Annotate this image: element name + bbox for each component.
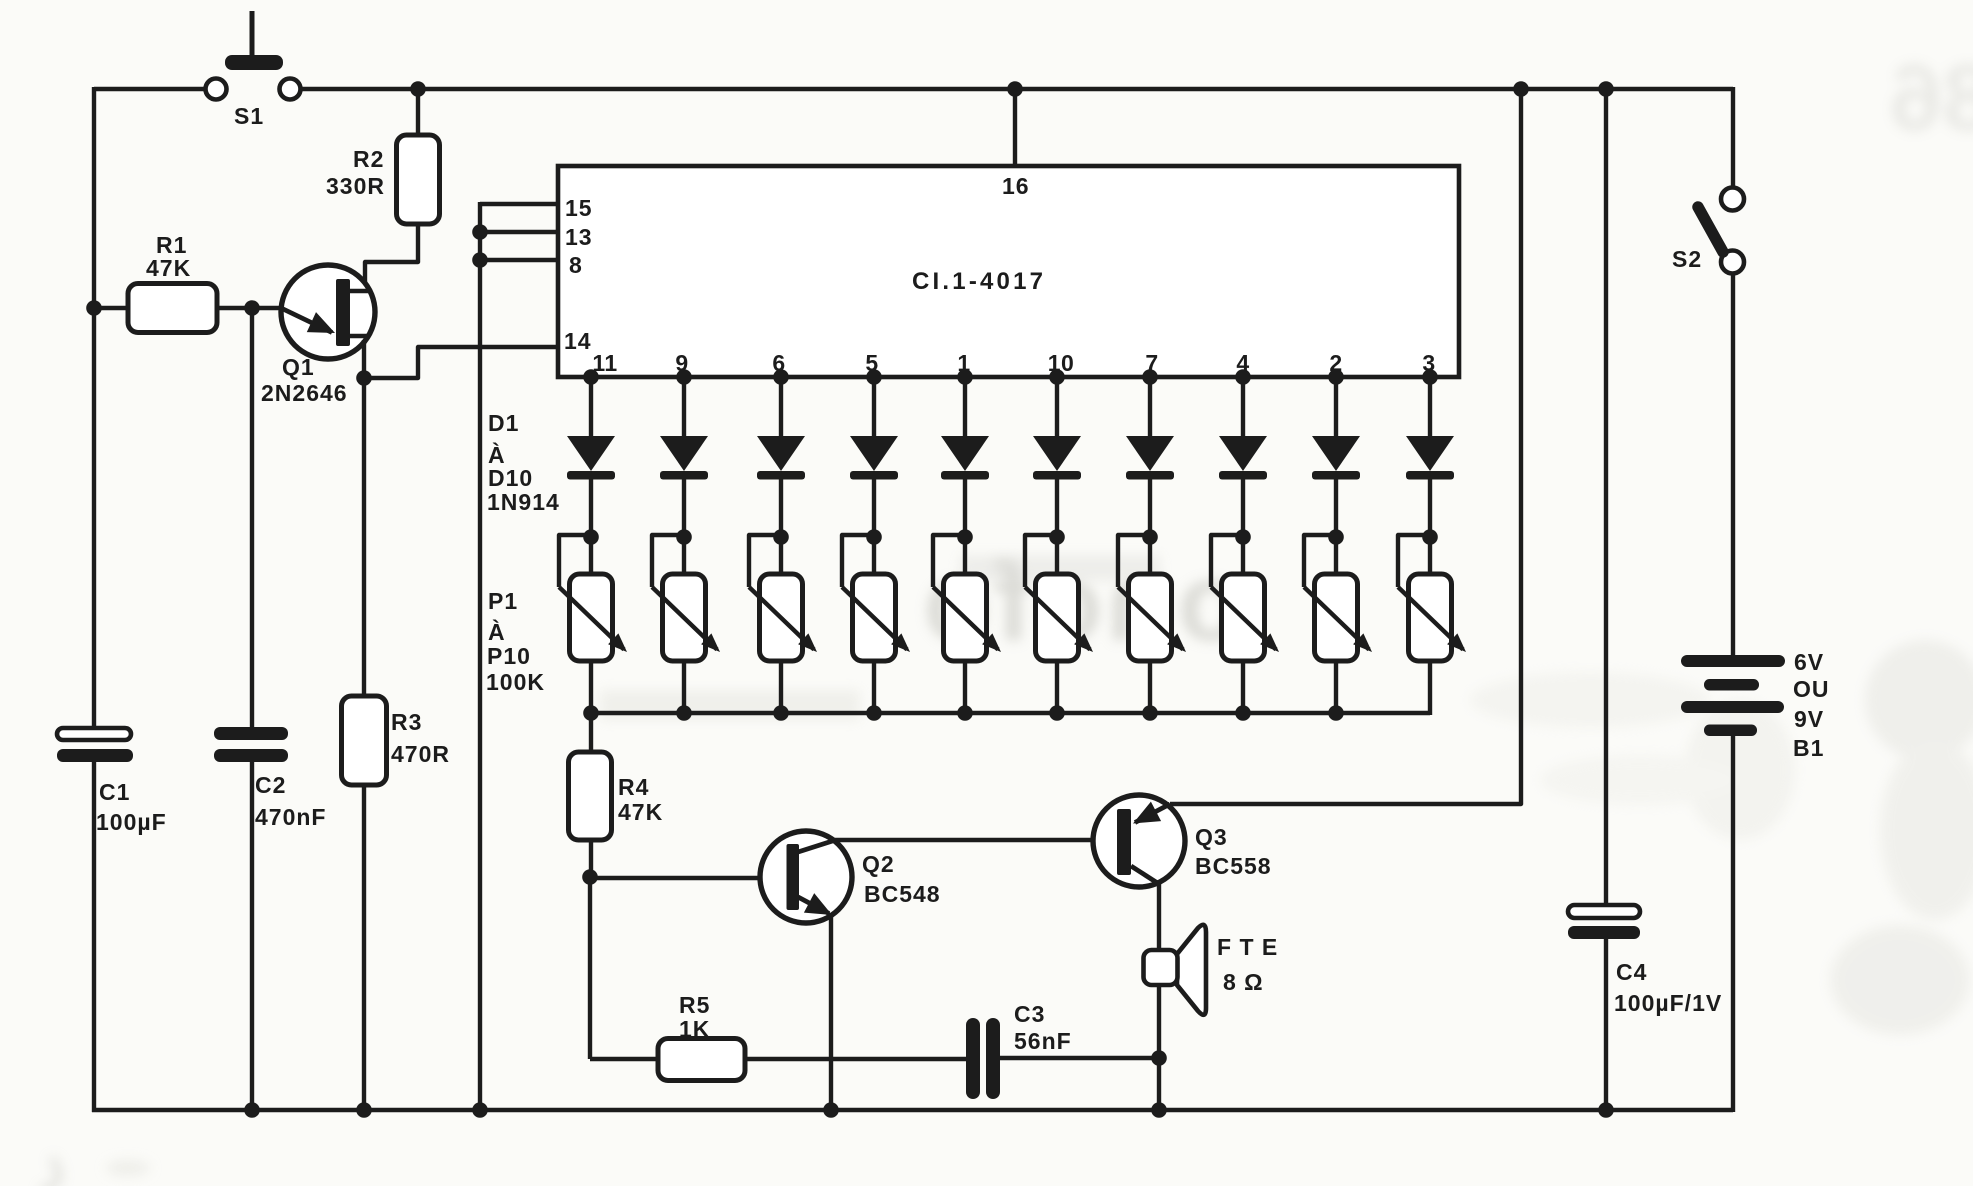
wire C4 to ground bus [1604, 937, 1608, 1110]
wire R5 to C3 [745, 1057, 968, 1061]
wire R4 to base node [589, 840, 593, 877]
node R1 / C2 branch [244, 300, 260, 316]
wire pin 2 to D9 [1334, 377, 1338, 438]
resistor R5 [658, 1039, 745, 1081]
wire +V drop at x=1521 to Q3 emitter [1170, 89, 1521, 804]
svg-text:56nF: 56nF [1014, 1028, 1072, 1054]
capacitor C3 [966, 1018, 1000, 1099]
node pot bus 7 [1142, 705, 1158, 721]
label pin 7 [1145, 350, 1158, 376]
diode D4 [850, 436, 898, 480]
wire P8 top lead [1241, 537, 1245, 576]
wire left rail down to C1 [92, 87, 96, 731]
svg-text:BC548: BC548 [864, 881, 941, 907]
svg-text:À: À [488, 441, 506, 468]
node C4 / ground bus [1598, 1102, 1614, 1118]
battery B1 [1681, 655, 1785, 736]
node pin 1 [957, 369, 973, 385]
wire pin 15 stub [480, 202, 558, 206]
wire right rail S2 to battery [1731, 273, 1735, 657]
svg-text:P10: P10 [487, 643, 531, 669]
label pin 3 [1422, 350, 1435, 376]
potentiometer P7 body [1129, 574, 1172, 661]
node D2/P2 junction [676, 529, 692, 545]
node pin 4 [1235, 369, 1251, 385]
node pin 10 [1049, 369, 1065, 385]
wire node to R3 [362, 378, 366, 698]
wire D8 to P8 [1241, 479, 1245, 537]
label C1 100µF [96, 779, 167, 835]
wire P7 top lead [1148, 537, 1152, 576]
potentiometer P5 wiper [933, 535, 1001, 652]
node top rail / pin16 [1007, 81, 1023, 97]
label C3 56nF [1014, 1001, 1072, 1054]
label FTE 8Ω [1217, 934, 1278, 995]
node pin 5 [866, 369, 882, 385]
wire left rail C1 to ground bus [92, 760, 96, 1112]
wire P5 top lead [963, 537, 967, 576]
wire D4 to P4 [872, 479, 876, 537]
potentiometer P9 body [1315, 574, 1358, 661]
potentiometer P4 wiper [842, 535, 910, 652]
svg-text:C3: C3 [1014, 1001, 1045, 1027]
node D10/P10 junction [1422, 529, 1438, 545]
wire P2 top lead [682, 537, 686, 576]
wire Q1 base1 down [362, 340, 366, 378]
potentiometer P2 wiper [652, 535, 720, 652]
node D1/P1 junction [583, 529, 599, 545]
node pin 11 [583, 369, 599, 385]
label pin 2 [1329, 350, 1342, 376]
svg-text:2N2646: 2N2646 [261, 380, 348, 406]
wire P10 bottom lead [1428, 661, 1432, 715]
svg-text:P1: P1 [488, 588, 518, 614]
svg-text:8: 8 [569, 252, 583, 278]
wire R1 to Q1 emitter [217, 306, 283, 310]
potentiometer P9 wiper [1304, 535, 1372, 652]
wire P6 top lead [1055, 537, 1059, 576]
svg-text:470R: 470R [391, 741, 450, 767]
wire pin 11 to D1 [589, 377, 593, 438]
node D8/P8 junction [1235, 529, 1251, 545]
potentiometer P1 body [570, 574, 613, 661]
svg-text:R3: R3 [391, 709, 422, 735]
label Q1 2N2646 [261, 354, 348, 406]
wire P2 bottom lead [682, 661, 686, 715]
label R2 330R [326, 146, 385, 199]
node D4/P4 junction [866, 529, 882, 545]
potentiometer P2 body [663, 574, 706, 661]
diode D1 [567, 436, 615, 480]
label CI.1-4017 [912, 268, 1046, 295]
potentiometer P10 wiper [1398, 535, 1466, 652]
svg-text:1K: 1K [679, 1016, 710, 1042]
diode D9 [1312, 436, 1360, 480]
label C2 470nF [255, 772, 326, 830]
wire top rail to R2 [416, 89, 420, 136]
pushbutton S1 [206, 11, 301, 100]
resistor R1 [128, 284, 217, 333]
node Q2 emitter / ground bus [823, 1102, 839, 1118]
wire pin 3 to D10 [1428, 377, 1432, 438]
wire base node to R5 [590, 1057, 659, 1061]
svg-text:1N914: 1N914 [487, 489, 560, 515]
wire P3 top lead [779, 537, 783, 576]
node pot bus 9 [1328, 705, 1344, 721]
svg-text:15: 15 [565, 195, 593, 221]
node D9/P9 junction [1328, 529, 1344, 545]
wire pin 4 to D8 [1241, 377, 1245, 438]
svg-text:À: À [488, 618, 506, 645]
node pin 3 [1422, 369, 1438, 385]
potentiometer P4 body [853, 574, 896, 661]
node pot bus 8 [1235, 705, 1251, 721]
capacitor C4 [1568, 905, 1640, 939]
resistor R4 [569, 752, 612, 840]
diode D7 [1126, 436, 1174, 480]
svg-text:100µF/1V: 100µF/1V [1614, 990, 1722, 1016]
label D1 À D10 1N914 [487, 410, 560, 515]
label pin 14 [564, 328, 592, 354]
node D7/P7 junction [1142, 529, 1158, 545]
wire pin 16 [1013, 89, 1017, 166]
wire R3 to ground bus [362, 785, 366, 1110]
transistor Q3 [1093, 795, 1185, 887]
node pot bus 6 [1049, 705, 1065, 721]
wire top +V rail (S1 to right corner) [301, 87, 1733, 91]
wire P9 top lead [1334, 537, 1338, 576]
wire D10 to P10 [1428, 479, 1432, 537]
label Q3 BC558 [1195, 824, 1272, 879]
label pin 4 [1236, 350, 1249, 376]
wire pin 7 to D7 [1148, 377, 1152, 438]
potentiometer P3 wiper [749, 535, 817, 652]
node pot bus 5 [957, 705, 973, 721]
svg-text:100K: 100K [486, 669, 545, 695]
wire R2 to Q1 base2 [365, 224, 418, 285]
svg-text:6V: 6V [1794, 649, 1824, 675]
svg-text:47K: 47K [146, 255, 191, 281]
diode D3 [757, 436, 805, 480]
potentiometer P1 wiper [559, 535, 627, 652]
node D3/P3 junction [773, 529, 789, 545]
node common line / ground bus [472, 1102, 488, 1118]
label pin 6 [772, 350, 785, 376]
wire P5 bottom lead [963, 661, 967, 715]
resistor R3 [342, 696, 387, 785]
potentiometer P7 wiper [1118, 535, 1186, 652]
label R3 470R [391, 709, 450, 767]
svg-text:47K: 47K [618, 799, 663, 825]
wire D7 to P7 [1148, 479, 1152, 537]
node D5/P5 junction [957, 529, 973, 545]
wire top rail corner down to S2 [1731, 87, 1735, 189]
wire Q3 collector to speaker [1157, 882, 1161, 1110]
wire pot output bus [591, 711, 1430, 715]
label pin 11 [592, 350, 617, 376]
wire pin 6 to D3 [779, 377, 783, 438]
wire pin 8 stub [480, 258, 558, 262]
wire D2 to P2 [682, 479, 686, 537]
switch S2 [1698, 188, 1744, 274]
wire P4 bottom lead [872, 661, 876, 715]
svg-text:9V: 9V [1794, 706, 1824, 732]
svg-text:Q1: Q1 [282, 354, 315, 380]
label P1 À P10 100K [486, 588, 545, 695]
potentiometer P6 body [1036, 574, 1079, 661]
label pin 13 [565, 224, 593, 250]
wire P3 bottom lead [779, 661, 783, 715]
node pin8 tee [472, 252, 488, 268]
svg-text:OU: OU [1793, 676, 1830, 702]
label R4 47K [618, 774, 663, 825]
wire pin 9 to D2 [682, 377, 686, 438]
svg-text:D10: D10 [488, 465, 533, 491]
svg-text:C1: C1 [99, 779, 130, 805]
node C2 / ground bus [244, 1102, 260, 1118]
wire pin 10 to D6 [1055, 377, 1059, 438]
wire Q2 base [590, 876, 788, 880]
node Q1 base1 / R3 / pin14 [356, 370, 372, 386]
label pin 5 [865, 350, 878, 376]
node pot bus 3 [773, 705, 789, 721]
node C3 / speaker / Q3 collector [1151, 1050, 1167, 1066]
node R4 / Q2 base / R5 [582, 869, 598, 885]
svg-text:8 Ω: 8 Ω [1223, 969, 1264, 995]
svg-text:S2: S2 [1672, 246, 1702, 272]
node pin 2 [1328, 369, 1344, 385]
node top rail / Q3 emitter branch [1513, 81, 1529, 97]
svg-text:Q2: Q2 [862, 851, 895, 877]
potentiometer P6 wiper [1025, 535, 1093, 652]
node pot bus 1 [583, 705, 599, 721]
node pin 6 [773, 369, 789, 385]
wire D3 to P3 [779, 479, 783, 537]
node speaker / ground bus [1151, 1102, 1167, 1118]
node pot bus 4 [866, 705, 882, 721]
node left rail / R1 [86, 300, 102, 316]
potentiometer P8 wiper [1211, 535, 1279, 652]
speaker FTE [1144, 925, 1207, 1015]
wire D9 to P9 [1334, 479, 1338, 537]
wire P8 bottom lead [1241, 661, 1245, 715]
potentiometer P3 body [760, 574, 803, 661]
transistor Q1 (UJT) [281, 265, 375, 359]
wire Q2 emitter to ground [829, 914, 833, 1110]
label C4 100µF/1V [1614, 959, 1722, 1016]
label pin 15 [565, 195, 593, 221]
diode D10 [1406, 436, 1454, 480]
wire right rail battery to ground bus [1731, 735, 1735, 1112]
svg-text:R5: R5 [679, 992, 710, 1018]
transistor Q2 [760, 831, 852, 923]
svg-text:100µF: 100µF [96, 809, 167, 835]
label pin 10 [1048, 350, 1075, 376]
wire P7 bottom lead [1148, 661, 1152, 715]
wire D6 to P6 [1055, 479, 1059, 537]
svg-text:BC558: BC558 [1195, 853, 1272, 879]
IC U1 CI.1-4017 body [558, 166, 1459, 377]
label S2 [1672, 246, 1702, 272]
wire P10 top lead [1428, 537, 1432, 576]
wire pin 13 stub [480, 230, 558, 234]
wire C2 to ground bus [250, 762, 254, 1110]
wire D5 to P5 [963, 479, 967, 537]
potentiometer P10 body [1409, 574, 1452, 661]
svg-text:S1: S1 [234, 103, 264, 129]
label pin 1 [957, 350, 970, 376]
resistor R2 [397, 135, 440, 224]
potentiometer P5 body [944, 574, 987, 661]
node D6/P6 junction [1049, 529, 1065, 545]
node pin 9 [676, 369, 692, 385]
svg-text:16: 16 [1002, 173, 1030, 199]
label S1 [234, 103, 264, 129]
wire left rail to R1 [94, 306, 129, 310]
node pin13 tee [472, 224, 488, 240]
svg-text:D1: D1 [488, 410, 519, 436]
node pot bus 2 [676, 705, 692, 721]
node top rail / C4 branch [1598, 81, 1614, 97]
wire pot bus to R4 [589, 713, 593, 754]
capacitor C1 [57, 728, 133, 762]
wire +V drop at x=1606 to C4 [1604, 89, 1608, 906]
svg-text:470nF: 470nF [255, 804, 326, 830]
wire pin14 to Q1/R3 node [364, 347, 558, 378]
wire Q2 collector to Q3 base [833, 838, 1118, 842]
wire P4 top lead [872, 537, 876, 576]
svg-text:330R: 330R [326, 173, 385, 199]
label pin 8 [569, 252, 583, 278]
diode D6 [1033, 436, 1081, 480]
svg-text:86: 86 [1889, 45, 1973, 151]
svg-text:CI.1-4017: CI.1-4017 [912, 268, 1046, 295]
svg-text:F T E: F T E [1217, 934, 1278, 960]
node R3 / ground bus [356, 1102, 372, 1118]
wire pin 1 to D5 [963, 377, 967, 438]
label R1 47K [146, 232, 191, 281]
label R5 1K [679, 992, 710, 1042]
wire top +V rail (left segment to S1) [94, 87, 205, 91]
wire P1 top lead [589, 537, 593, 576]
diode D2 [660, 436, 708, 480]
capacitor C2 [214, 727, 288, 762]
svg-text:R2: R2 [353, 146, 384, 172]
label pin 9 [675, 350, 688, 376]
diode D5 [941, 436, 989, 480]
wire P6 bottom lead [1055, 661, 1059, 715]
node pin 7 [1142, 369, 1158, 385]
diode D8 [1219, 436, 1267, 480]
wire base node down to R5 row [588, 877, 592, 1059]
wire P9 bottom lead [1334, 661, 1338, 715]
wire ground bus (bottom) [92, 1108, 1733, 1112]
label pin 16 [1002, 173, 1030, 199]
wire pins 15/13/8 common to ground [478, 202, 482, 1110]
wire C3 to speaker node [1000, 1056, 1159, 1060]
svg-text:C4: C4 [1616, 959, 1647, 985]
wire R1 node to C2 [250, 308, 254, 728]
wire P1 bottom lead [589, 661, 593, 715]
label Q2 BC548 [862, 851, 941, 907]
label 6V OU 9V B1 [1793, 649, 1830, 761]
svg-text:C2: C2 [255, 772, 286, 798]
svg-text:B1: B1 [1793, 735, 1824, 761]
potentiometer P8 body [1222, 574, 1265, 661]
svg-text:13: 13 [565, 224, 593, 250]
node top rail / R2 [410, 81, 426, 97]
svg-text:R4: R4 [618, 774, 649, 800]
wire D1 to P1 [589, 479, 593, 537]
svg-text:14: 14 [564, 328, 592, 354]
wire pin 5 to D4 [872, 377, 876, 438]
svg-text:Q3: Q3 [1195, 824, 1228, 850]
